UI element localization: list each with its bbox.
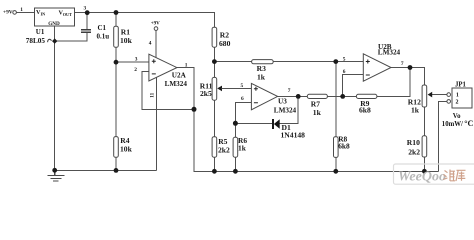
output label Vo 10mW/C	[442, 113, 474, 128]
op-amp U2A	[134, 40, 188, 97]
svg-text:7: 7	[288, 88, 291, 94]
svg-text:U3: U3	[278, 98, 287, 106]
svg-text:7: 7	[401, 61, 404, 67]
node U2A feedback tee	[192, 107, 197, 112]
svg-text:5: 5	[241, 83, 244, 89]
svg-text:5: 5	[343, 56, 346, 62]
svg-text:2k5: 2k5	[200, 89, 212, 98]
svg-text:6: 6	[241, 96, 244, 102]
svg-text:WeeQoo: WeeQoo	[398, 170, 446, 185]
wire R11 bottom to R5	[213, 100, 215, 137]
svg-text:LM324: LM324	[274, 106, 297, 114]
connector JP1	[447, 81, 472, 108]
rail dot R5	[212, 169, 217, 174]
resistor R6	[233, 136, 247, 157]
node U3 output / D1 cathode	[296, 94, 301, 99]
node X R2/R11/R3	[212, 59, 217, 64]
wire node X2 down to R8	[335, 62, 337, 137]
svg-text:3: 3	[135, 56, 138, 62]
wire U2A pin4 supply	[155, 30, 157, 57]
resistor R3 (horizontal)	[252, 60, 274, 82]
wire +5V rail from U1 output to R2	[75, 13, 215, 28]
node X2 R3/R8/pin5	[333, 59, 338, 64]
node VCC-C1	[85, 10, 90, 15]
wire U2A output down and bottom reference rail	[177, 68, 439, 172]
wire node X to R3 to U2B pin5	[214, 61, 363, 63]
resistor R1	[114, 26, 133, 47]
node B R1/R4/pin3	[114, 60, 119, 65]
node U2B pin6 / R7 / R9	[340, 94, 345, 99]
ground symbol	[48, 170, 65, 181]
svg-text:2k2: 2k2	[408, 148, 420, 157]
op-amp U2B	[343, 54, 404, 81]
resistor R7 (horizontal)	[307, 94, 327, 117]
svg-text:U2A: U2A	[172, 72, 187, 80]
wire U2A pin11 to ground	[156, 77, 158, 170]
svg-text:680: 680	[219, 39, 231, 48]
resistor R10	[407, 136, 427, 157]
resistor R2	[212, 27, 230, 48]
+9V terminal for U2A pin4	[151, 22, 160, 31]
node D1 anode / U3 pin6 / R6	[233, 121, 238, 126]
svg-text:+9V: +9V	[3, 10, 13, 16]
svg-text:10k: 10k	[120, 36, 133, 45]
svg-text:1N4148: 1N4148	[281, 130, 306, 139]
svg-text:2: 2	[134, 67, 137, 73]
svg-text:°C: °C	[464, 119, 473, 128]
potentiometer R11	[200, 77, 252, 100]
wire R8 bottom stub	[335, 157, 337, 171]
rail dot R10	[422, 169, 427, 174]
svg-text:1k: 1k	[238, 144, 247, 153]
svg-text:U1: U1	[36, 28, 45, 36]
svg-text:1: 1	[185, 62, 188, 68]
wire squiggle artifact left of diamond	[48, 39, 52, 42]
wire node B to U2A pin3	[116, 61, 149, 63]
wire R5 bottom stub	[213, 157, 215, 171]
svg-text:IN: IN	[41, 12, 46, 17]
wire R12 bottom to R10	[423, 107, 425, 136]
svg-text:Vo: Vo	[453, 113, 461, 120]
svg-text:GND: GND	[48, 21, 60, 27]
svg-text:1: 1	[456, 92, 459, 98]
rail dot GND symbol	[52, 168, 57, 173]
svg-text:1k: 1k	[257, 72, 266, 81]
svg-text:6: 6	[343, 69, 346, 75]
wire R6 bottom stub	[234, 157, 236, 171]
svg-text:78L05: 78L05	[26, 37, 46, 45]
U2A labels	[165, 72, 188, 88]
svg-text:+9V: +9V	[151, 22, 160, 27]
wire D1 cathode up to U3 output	[280, 96, 299, 123]
diode D1 1N4148 (cathode bar left, black triangle pointing left)	[273, 119, 305, 139]
svg-text:C1: C1	[98, 24, 107, 32]
regulator U1 78L05 box	[35, 6, 87, 28]
svg-text:2k2: 2k2	[218, 145, 230, 154]
svg-text:OUT: OUT	[63, 12, 72, 17]
svg-text:4: 4	[149, 40, 152, 46]
wire C1 ground return	[55, 33, 87, 41]
+9V input terminal	[3, 7, 23, 16]
svg-text:10k: 10k	[120, 144, 133, 153]
wire R1 bottom to R4 column	[115, 47, 117, 136]
resistor R9 (horizontal)	[356, 94, 377, 114]
rail dot R6	[233, 169, 238, 174]
svg-text:LM324: LM324	[378, 49, 401, 57]
CJK 维库 approximated strokes	[443, 170, 465, 182]
wire +9V input stub	[16, 12, 34, 14]
node U2B output	[408, 65, 413, 70]
svg-text:1: 1	[20, 7, 23, 13]
rail dot R8	[333, 169, 338, 174]
svg-text:R10: R10	[407, 138, 420, 147]
wire R7 right to pin6 node and R9	[327, 95, 356, 97]
wire ground rail left	[55, 169, 157, 171]
capacitor C1	[81, 24, 109, 40]
watermark WeeQoo	[394, 164, 474, 185]
svg-text:1k: 1k	[313, 108, 322, 117]
wire R2 bottom stub to node X	[213, 47, 215, 77]
wire U2B output to R12	[391, 68, 424, 86]
svg-text:6k8: 6k8	[338, 141, 350, 150]
svg-text:LM324: LM324	[165, 80, 188, 88]
resistor R4	[114, 136, 133, 157]
node VCC-R1	[114, 10, 119, 15]
svg-text:2: 2	[456, 99, 459, 105]
resistor R5	[212, 137, 230, 158]
U2B labels	[378, 43, 401, 57]
svg-text:1k: 1k	[411, 106, 420, 115]
wire R9 right up to U2B output node	[377, 68, 410, 97]
wire R4 bottom stub	[115, 157, 117, 170]
wire U2A feedback pin2 loop	[142, 72, 194, 110]
wire D1 anode line	[235, 123, 272, 125]
rail dot R4	[114, 168, 119, 173]
wire R1 top stub	[115, 13, 117, 27]
resistor R8	[334, 135, 351, 158]
svg-text:JP1: JP1	[455, 81, 467, 88]
wire U2B pin6 loop	[343, 75, 364, 97]
svg-text:0.1u: 0.1u	[97, 32, 110, 40]
U3 labels	[274, 98, 297, 115]
wire JP1 pin2 to ground rail	[439, 101, 447, 171]
wire R12 wiper to JP1 pin1	[432, 94, 447, 96]
wire R10 bottom stub	[423, 157, 425, 171]
potentiometer R12	[408, 85, 432, 115]
svg-text:11: 11	[150, 92, 156, 97]
svg-text:6k8: 6k8	[359, 105, 371, 114]
junction C1 ground return on GND wire (diamond)	[52, 38, 57, 43]
wire C1 top stub	[86, 13, 88, 30]
wire U3 pin6 loop to D1 anode node	[235, 103, 251, 138]
wire U3 output line	[278, 95, 308, 97]
wire U1 GND down	[54, 26, 56, 171]
op-amp U3	[241, 83, 291, 110]
svg-text:10mW/: 10mW/	[442, 121, 463, 128]
U1 reference labels	[26, 28, 46, 45]
